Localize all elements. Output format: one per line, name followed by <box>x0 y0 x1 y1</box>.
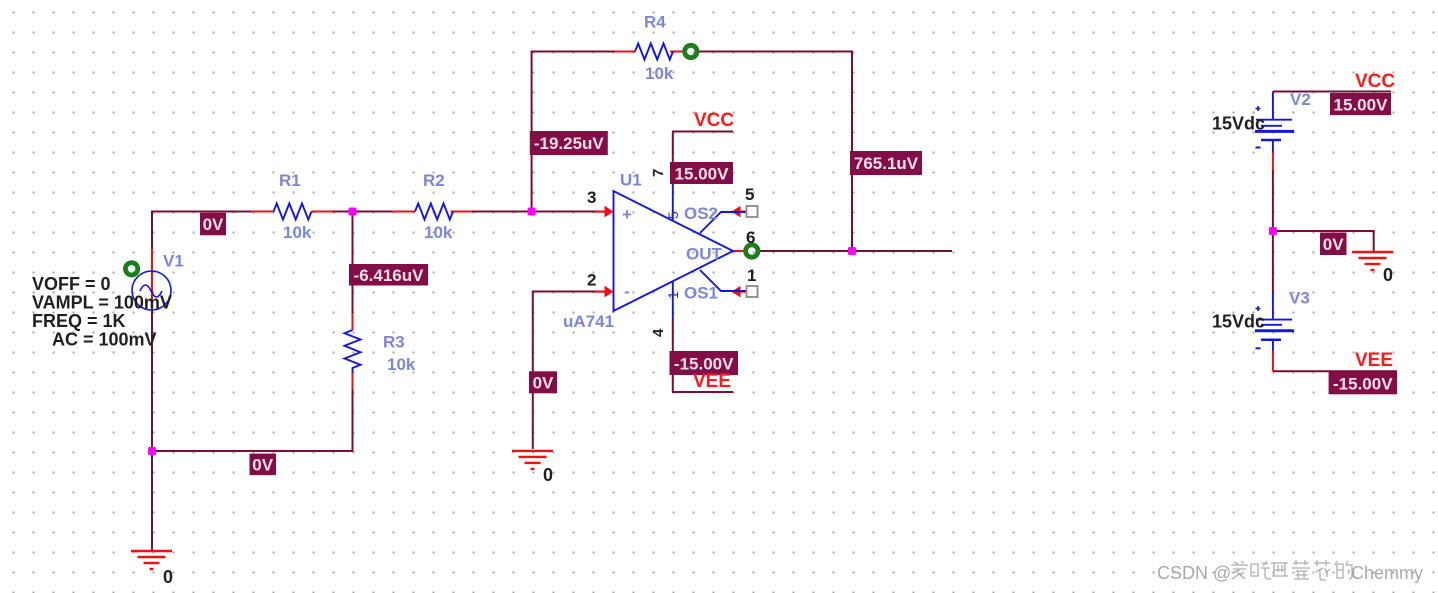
V1 sine wave <box>140 285 162 297</box>
svg-text:2: 2 <box>587 271 596 290</box>
svg-text:5: 5 <box>745 185 754 204</box>
svg-text:0V: 0V <box>252 456 273 475</box>
ground 0 below pin2 <box>512 451 553 469</box>
svg-text:AC = 100mV: AC = 100mV <box>52 330 157 350</box>
svg-text:15Vdc: 15Vdc <box>1212 114 1265 134</box>
ground 0 right <box>1352 252 1393 270</box>
marker donut V1 <box>125 263 137 275</box>
op-amp pin 4 blue <box>672 281 674 321</box>
wire V1 bottom vertical <box>151 309 153 551</box>
box 0V right <box>1320 233 1347 256</box>
svg-text:1: 1 <box>665 291 681 299</box>
svg-text:R2: R2 <box>423 171 445 190</box>
svg-text:VAMPL = 100mV: VAMPL = 100mV <box>32 293 172 313</box>
VCC bar right with wire <box>1273 91 1391 93</box>
svg-text:VCC: VCC <box>694 110 734 131</box>
svg-text:0: 0 <box>543 465 553 485</box>
V2 bottom pin red <box>1272 152 1274 171</box>
svg-text:Chemmy: Chemmy <box>1351 563 1423 583</box>
svg-text:15.00V: 15.00V <box>1334 96 1389 115</box>
svg-text:10k: 10k <box>283 223 312 242</box>
box 0V bottom <box>250 454 277 476</box>
box 0V pin2 <box>529 371 557 393</box>
svg-text:VEE: VEE <box>693 371 731 392</box>
svg-text:V3: V3 <box>1289 289 1310 308</box>
wire R3 top <box>352 212 354 314</box>
VEE power bar U1 <box>672 391 733 393</box>
svg-text:U1: U1 <box>620 171 642 190</box>
pin 1 arrow OS1 <box>732 286 748 298</box>
OS1 stub <box>700 270 746 291</box>
svg-text:0V: 0V <box>1323 235 1344 254</box>
wire pin 4 lower <box>672 320 674 392</box>
pin 3 arrow <box>595 206 614 218</box>
svg-text:0V: 0V <box>203 215 224 234</box>
junction node output/feedback <box>848 247 856 255</box>
svg-text:OS1: OS1 <box>684 284 718 303</box>
svg-text:VEE: VEE <box>1355 350 1393 371</box>
R3 top lead <box>352 313 354 330</box>
unconnected pin square 1 <box>747 286 758 297</box>
svg-text:10k: 10k <box>424 223 453 242</box>
svg-text:1: 1 <box>747 266 756 285</box>
svg-text:-: - <box>624 282 630 301</box>
junction node pin3/R4 <box>528 208 536 216</box>
wire V2 bottom to V3 top <box>1272 170 1274 292</box>
svg-text:-15.00V: -15.00V <box>1333 375 1393 394</box>
resistor R1 <box>274 204 312 220</box>
wire pin 7 upper <box>672 132 674 186</box>
svg-text:10k: 10k <box>387 355 416 374</box>
svg-text:OUT: OUT <box>686 245 723 264</box>
svg-text:-6.416uV: -6.416uV <box>354 266 425 285</box>
box 15.00V right <box>1330 93 1391 115</box>
V1 pin red segment <box>151 249 153 309</box>
svg-text:FREQ = 1K: FREQ = 1K <box>32 311 126 331</box>
svg-text:3: 3 <box>587 188 596 207</box>
VCC power bar U1 <box>672 131 733 133</box>
box -19.25uV <box>530 131 608 155</box>
svg-text:765.1uV: 765.1uV <box>854 154 919 173</box>
wire output horizontal <box>759 250 952 252</box>
marker donut OUT <box>746 245 758 257</box>
box 765.1uV <box>850 151 922 175</box>
resistor R3 <box>345 330 361 373</box>
svg-text:4: 4 <box>650 328 667 337</box>
watermark <box>1157 563 1231 583</box>
unconnected pin square 5 <box>747 206 758 217</box>
svg-text:R3: R3 <box>383 333 405 352</box>
svg-text:uA741: uA741 <box>563 312 614 331</box>
box -6.416uV <box>349 264 428 286</box>
junction node V2/V3 <box>1269 227 1277 235</box>
junction node R1/R2/R3 <box>349 208 357 216</box>
V2 battery <box>1255 92 1294 153</box>
wire bottom horizontal <box>152 450 353 452</box>
wire R4 row right <box>698 51 853 53</box>
svg-text:0: 0 <box>163 567 173 587</box>
part reference labels <box>163 13 1311 375</box>
svg-text:6: 6 <box>746 228 755 247</box>
wire pin 2 horizontal <box>533 291 597 293</box>
wire R3 bottom <box>352 390 354 453</box>
svg-text:7: 7 <box>650 169 667 177</box>
wire V1 top vertical <box>151 212 153 252</box>
out apex lead <box>733 250 746 252</box>
op-amp pin 7 blue <box>672 184 674 220</box>
svg-text:+: + <box>622 205 632 224</box>
svg-text:V2: V2 <box>1290 90 1311 109</box>
box -15.00V right <box>1329 372 1398 395</box>
svg-text:CSDN @: CSDN @ <box>1157 563 1231 583</box>
VEE bar right with wire <box>1273 370 1397 372</box>
R1 left lead <box>251 211 274 213</box>
V3 battery <box>1255 292 1294 351</box>
junction node V1 bottom <box>148 447 156 455</box>
watermark CJK approx glyphs <box>1231 560 1352 580</box>
R4 left lead <box>614 51 635 53</box>
box -15.00V U1 <box>670 351 739 375</box>
R3 bottom lead <box>352 373 354 390</box>
svg-text:R1: R1 <box>279 171 301 190</box>
svg-text:0: 0 <box>1383 265 1393 285</box>
resistor R2 <box>415 204 453 220</box>
wire right ground drop <box>1373 230 1375 252</box>
wire R2 to pin 3 <box>472 211 597 213</box>
R2 right lead <box>451 211 473 213</box>
svg-text:R4: R4 <box>644 13 666 32</box>
box 15.00V U1 <box>670 162 733 184</box>
black value texts <box>32 114 1393 588</box>
svg-text:5: 5 <box>665 211 681 219</box>
svg-text:0V: 0V <box>533 374 554 393</box>
V1 sine source circle <box>132 271 171 310</box>
pin 5 arrow OS2 <box>732 206 748 218</box>
wire R4 row left <box>531 51 614 53</box>
power net labels <box>693 71 1395 392</box>
ground 0 below V1 <box>131 551 172 569</box>
bias voltage boxes <box>200 93 1397 475</box>
svg-text:10k: 10k <box>645 64 674 83</box>
R2 left lead <box>392 211 415 213</box>
svg-text:VOFF = 0: VOFF = 0 <box>32 274 111 294</box>
R1 right lead <box>312 211 334 213</box>
OS2 stub <box>700 212 746 233</box>
box 0V near V1 <box>200 213 226 236</box>
wire R4 left vertical <box>531 52 533 212</box>
svg-text:15Vdc: 15Vdc <box>1212 312 1265 332</box>
op-amp U1 triangle <box>614 191 734 311</box>
pin numbers <box>587 169 756 337</box>
svg-text:-19.25uV: -19.25uV <box>534 134 605 153</box>
wire R1 to R2 <box>333 211 392 213</box>
svg-text:OS2: OS2 <box>684 204 718 223</box>
wire top-left horizontal to R1 <box>151 211 251 213</box>
svg-text:V1: V1 <box>163 252 184 271</box>
svg-text:VCC: VCC <box>1355 71 1395 92</box>
wire middle right horizontal <box>1273 230 1374 232</box>
pin 2 arrow <box>595 286 614 298</box>
marker donut R4 output <box>685 45 697 57</box>
resistor R4 <box>635 44 673 60</box>
svg-text:15.00V: 15.00V <box>675 165 730 184</box>
V3 bottom pin red <box>1272 350 1274 372</box>
wire feedback right vertical <box>851 51 853 252</box>
R4 right lead <box>670 51 684 53</box>
wire pin 2 vertical to ground <box>532 291 534 450</box>
